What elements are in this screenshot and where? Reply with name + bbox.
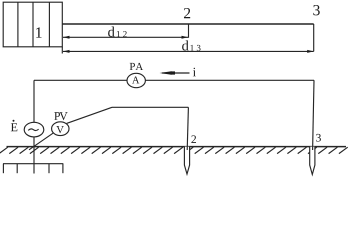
label 2 (top)	[184, 8, 190, 18]
label 2 (at ground)	[191, 135, 196, 143]
wire probe 2 drop	[187, 107, 188, 150]
wire top (grid 1 to node 3)	[62, 23, 313, 25]
electrode grid 1 (buried, side view)	[3, 164, 63, 174]
label d12	[108, 27, 127, 37]
node 3 drop	[313, 24, 315, 51]
ammeter PA	[127, 73, 145, 87]
voltmeter PV	[52, 122, 69, 136]
dimension d13	[63, 50, 314, 53]
wire left vertical to source	[33, 80, 35, 122]
label 3 (at ground)	[316, 134, 321, 142]
current arrow i	[160, 71, 190, 75]
label PV	[54, 112, 67, 120]
label 1	[36, 27, 41, 37]
electrode grid 1 (plan view rectangle)	[3, 2, 62, 53]
label E-dot	[11, 120, 17, 132]
wire diagonal: grid junction to voltmeter	[29, 133, 53, 150]
ground surface line	[7, 146, 347, 148]
probe rod 3	[310, 147, 315, 175]
wire diagonal: voltmeter to probe 2 run	[67, 107, 112, 123]
wire lower loop top left	[34, 79, 127, 81]
label i	[193, 68, 196, 77]
wire lower loop top right	[146, 79, 314, 81]
label PA	[130, 63, 143, 70]
ground hatching	[0, 147, 348, 153]
probe rod 2	[184, 147, 189, 174]
label 3 (top)	[313, 5, 319, 15]
wire horizontal to probe 2	[112, 106, 188, 108]
label d13	[182, 40, 200, 51]
wire source to buried grid	[33, 137, 35, 174]
node 2 tick	[188, 24, 190, 38]
source E (AC)	[24, 122, 44, 137]
dimension d12	[63, 36, 188, 39]
wire right vertical to probe 3	[313, 80, 314, 150]
